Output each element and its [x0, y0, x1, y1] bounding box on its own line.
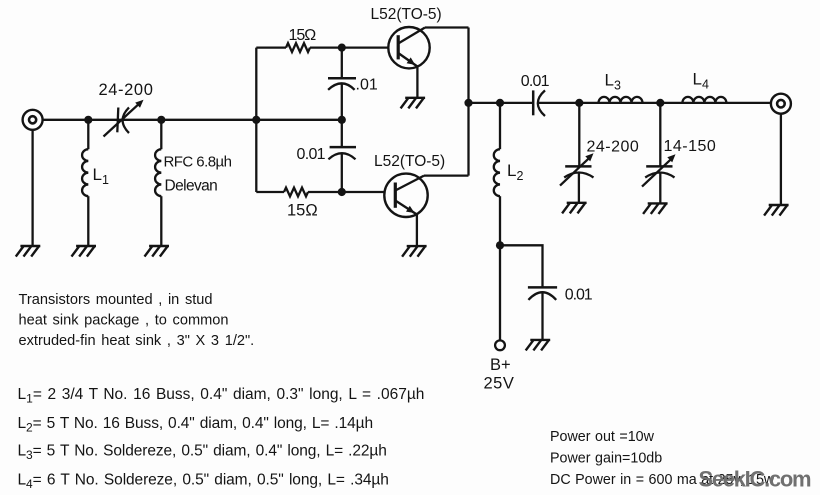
note: heat sink text: [19, 292, 255, 349]
capacitor C1 variable 24-200 (series): [104, 104, 139, 136]
node E: center tap: [338, 116, 346, 124]
capacitor C7 variable 14-150 (shunt): [642, 103, 675, 203]
wire Q2 collector to rail: [424, 174, 469, 176]
capacitor C2 .01: [328, 48, 356, 120]
wire bottom branch right to Q2 base: [308, 191, 384, 193]
node B: RFC tap: [157, 116, 165, 124]
node I: C6 tap: [575, 99, 583, 107]
svg-text:B+: B+: [490, 356, 511, 374]
ground G8 at J2: [765, 205, 788, 215]
svg-text:L3= 5 T No. Soldereze, 0.5" di: L3= 5 T No. Soldereze, 0.5" diam, 0.4" l…: [18, 443, 387, 463]
wire Q1 collector top rail: [425, 26, 469, 28]
svg-text:15Ω: 15Ω: [289, 27, 317, 44]
wire output rail right: [539, 102, 771, 104]
svg-text:0.01: 0.01: [297, 146, 326, 163]
resistor R2 15 ohm (bottom): [284, 188, 308, 197]
node K: B+ junction: [496, 241, 504, 249]
svg-text:0.01: 0.01: [521, 73, 550, 90]
inductor L2: [494, 103, 500, 245]
svg-text:L1= 2 3/4 T No. 16 Buss, 0.4": L1= 2 3/4 T No. 16 Buss, 0.4" diam, 0.3"…: [18, 386, 425, 406]
wire Q2 emitter to ground: [416, 215, 418, 247]
wire J2 to ground: [780, 114, 782, 205]
svg-text:24-200: 24-200: [587, 139, 640, 156]
wire splitter vertical: [255, 48, 257, 192]
wire Q1 emitter to ground: [416, 67, 418, 98]
capacitor C3 0.01: [328, 120, 356, 192]
wire J1 to ground: [31, 130, 33, 246]
node G: collector junction: [464, 99, 472, 107]
resistor R1 15 ohm (top): [286, 43, 310, 52]
wire top branch right to Q1 base: [310, 46, 388, 48]
ground G3 at RFC: [145, 246, 168, 256]
node C: splitter: [252, 116, 260, 124]
svg-text:Delevan: Delevan: [165, 178, 218, 195]
ground G5 at Q2 emitter: [403, 246, 426, 256]
capacitor C6 variable 24-200 (shunt): [560, 103, 594, 203]
node F: R2/C3: [338, 188, 346, 196]
svg-text:14-150: 14-150: [664, 138, 717, 155]
ground G9 at C5: [526, 340, 549, 350]
wire collector rail vertical: [467, 28, 469, 176]
svg-text:0.01: 0.01: [565, 287, 593, 304]
svg-text:L4= 6 T No. Soldereze, 0.5" di: L4= 6 T No. Soldereze, 0.5" diam, 0.5" l…: [18, 472, 389, 492]
capacitor C5 0.01 (bypass): [528, 287, 557, 340]
inductor L3: [599, 97, 643, 103]
wire output rail left: [469, 102, 534, 104]
svg-text:24-200: 24-200: [99, 81, 154, 99]
node H: L2 tap: [496, 99, 504, 107]
wire main input rail: [43, 119, 342, 121]
wire L2 bottom to B+: [499, 245, 501, 340]
svg-text:Power out =10w: Power out =10w: [550, 429, 655, 445]
wire top branch left: [256, 46, 286, 48]
svg-text:L52(TO-5): L52(TO-5): [374, 153, 445, 170]
node A: L1 tap: [84, 116, 92, 124]
svg-text:Power gain=10db: Power gain=10db: [550, 451, 662, 467]
ground G2 at L1: [72, 246, 95, 256]
inductor RFC 6.8uh Delevan: [155, 120, 161, 246]
note: power data: [550, 429, 775, 488]
svg-text:Transistors mounted , in stud: Transistors mounted , in stud: [19, 292, 213, 308]
terminal B+: [495, 340, 505, 350]
inductor L1: [82, 120, 88, 246]
svg-text:15Ω: 15Ω: [287, 202, 318, 220]
svg-text:L52(TO-5): L52(TO-5): [371, 6, 442, 23]
svg-text:heat sink package , to common: heat sink package , to common: [19, 313, 229, 329]
node J: C7 tap: [656, 99, 664, 107]
svg-text:.01: .01: [356, 77, 378, 94]
connector J2 RF output: [771, 94, 791, 114]
transistor Q1 L52 (TO-5) upper: [388, 27, 429, 68]
ground G4 at Q1 emitter: [401, 98, 424, 108]
connector J1 RF input: [23, 110, 43, 130]
svg-text:RFC 6.8µh: RFC 6.8µh: [164, 154, 232, 171]
capacitor C4 0.01 (series coupling): [533, 90, 545, 116]
wire bypass branch: [500, 245, 543, 287]
inductor L4: [682, 97, 726, 103]
node D: R1/C2: [338, 44, 346, 52]
ground G6 at C6: [563, 203, 586, 213]
transistor Q2 L52 (TO-5) lower: [384, 174, 427, 217]
svg-text:extruded-fin heat sink , 3" X: extruded-fin heat sink , 3" X 3 1/2".: [19, 333, 255, 349]
svg-text:L2= 5 T No. 16 Buss, 0.4" diam: L2= 5 T No. 16 Buss, 0.4" diam, 0.4" lon…: [18, 415, 373, 435]
ground G7 at C7: [644, 203, 667, 213]
wire bottom branch left: [256, 191, 284, 193]
svg-text:25V: 25V: [484, 375, 515, 393]
svg-text:SeekIC.com: SeekIC.com: [699, 467, 811, 492]
ground G1 at J1: [17, 246, 40, 256]
